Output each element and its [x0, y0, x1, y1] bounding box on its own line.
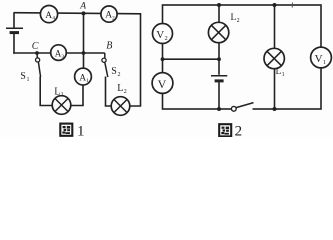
- svg-text:B: B: [106, 41, 112, 52]
- switch S3 gap cover (fig2 bottom): [231, 101, 253, 117]
- voltmeter V1: [311, 47, 332, 68]
- wire: fig1 middle horizontal (C row): [13, 52, 105, 54]
- svg-text:1: 1: [323, 60, 326, 66]
- wire: fig1 left vertical above battery: [13, 12, 15, 27]
- switch S1 lever: [38, 62, 40, 77]
- svg-text:C: C: [32, 41, 39, 52]
- svg-text:L: L: [276, 67, 282, 77]
- wire: fig1 vertical from node A down to A1: [83, 13, 85, 77]
- svg-text:2: 2: [118, 72, 121, 78]
- switch S2 terminal circle: [102, 58, 106, 62]
- svg-text:1: 1: [61, 92, 64, 98]
- wire: battery/L2 branch vertical (upper): [218, 5, 220, 59]
- svg-text:S: S: [111, 66, 117, 77]
- wire: fig1 right vertical (A2 branch): [129, 13, 141, 106]
- switch S1 terminal circle: [36, 58, 40, 62]
- junction dot top of L1 branch: [273, 3, 277, 7]
- svg-text:L: L: [54, 86, 60, 97]
- battery B2 long plate: [211, 75, 227, 77]
- node A dot: [82, 11, 86, 15]
- ammeter A1: [75, 68, 92, 85]
- wire: fig2 outer rectangle: [163, 5, 322, 109]
- svg-text:1: 1: [282, 72, 285, 78]
- junction dot bottom of battery branch: [217, 107, 221, 111]
- svg-text:2: 2: [112, 15, 115, 21]
- junction dot bottom of L1 branch: [273, 107, 277, 111]
- lamp L1 (fig1): [52, 96, 71, 115]
- svg-text:2: 2: [165, 36, 168, 42]
- wire: battery branch to bottom wire: [218, 82, 220, 109]
- wire: fig2 middle horizontal: [163, 58, 220, 60]
- lamp L1 (fig2): [264, 48, 284, 68]
- wire: fig1 A1 to lamp-row corner: [70, 77, 83, 106]
- wire: fig1 top horizontal: [14, 13, 141, 14]
- ammeter A4: [40, 6, 57, 23]
- svg-text:A: A: [79, 2, 86, 12]
- node C dot: [35, 51, 39, 55]
- svg-text:2: 2: [124, 89, 127, 95]
- svg-text:1: 1: [86, 78, 89, 84]
- wire: L1 branch vertical (fig2): [274, 5, 276, 109]
- svg-text:V: V: [156, 29, 164, 41]
- svg-text:4: 4: [52, 16, 55, 22]
- voltmeter V: [152, 73, 173, 94]
- svg-text:L: L: [117, 83, 123, 94]
- battery B1 short plate: [10, 31, 19, 34]
- small scan tick on top wire: [291, 3, 293, 8]
- svg-text:3: 3: [61, 54, 64, 60]
- ammeter A3: [51, 45, 67, 61]
- svg-text:A: A: [45, 11, 52, 21]
- switch S1 stub from C: [36, 53, 38, 58]
- wire: S2 down to lamp L2: [106, 77, 113, 107]
- wire: S1 down to lamp row: [40, 77, 53, 106]
- voltmeter V2: [153, 24, 173, 44]
- ammeter A2: [101, 6, 117, 22]
- svg-text:V: V: [158, 77, 167, 91]
- wire: fig1 left vertical below battery: [13, 34, 15, 54]
- junction dot top of L2 branch: [217, 3, 221, 7]
- svg-text:2: 2: [237, 18, 240, 24]
- junction dot left-middle: [161, 57, 165, 61]
- junction dot (A-branch crosses middle row): [82, 51, 86, 55]
- switch S2 corner stub from B: [104, 53, 106, 58]
- svg-text:1: 1: [27, 77, 30, 83]
- svg-text:2: 2: [235, 123, 243, 137]
- figure 1 caption: 图 glyph: [60, 124, 72, 136]
- switch S3 terminal circle: [231, 106, 236, 111]
- junction dot middle of battery branch: [217, 57, 221, 61]
- switch S3 lever: [236, 103, 253, 108]
- lamp L2 (fig1): [111, 97, 130, 116]
- svg-text:1: 1: [77, 123, 85, 137]
- figure 2 caption: 图 glyph: [219, 124, 231, 136]
- svg-text:L: L: [231, 13, 237, 23]
- lamp L2 (fig2): [208, 22, 228, 42]
- svg-text:V: V: [315, 53, 323, 65]
- wire: battery branch below middle wire: [218, 59, 220, 75]
- battery B2 short plate: [215, 79, 224, 82]
- switch S2 lever: [105, 62, 108, 77]
- svg-text:S: S: [20, 71, 26, 82]
- battery B1 long plate: [6, 27, 23, 29]
